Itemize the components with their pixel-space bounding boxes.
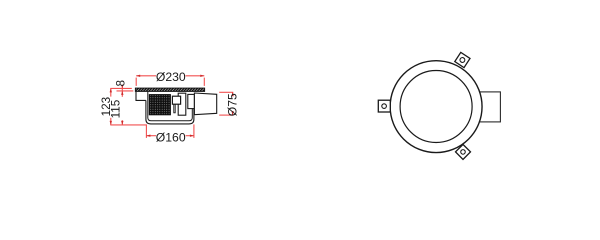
O160 arrows <box>146 135 150 137</box>
bowl inner wall <box>148 92 193 121</box>
ext line flange bottom <box>117 90 134 92</box>
115 arrows <box>121 91 123 95</box>
bowl outer wall <box>146 100 194 124</box>
outlet pipe <box>194 93 216 115</box>
dim line O75 <box>232 92 234 96</box>
bottom mounting tab <box>456 144 471 159</box>
socket <box>188 94 195 108</box>
dim line 123 <box>110 88 112 96</box>
dim line 115 and 8 (shared x) <box>121 87 123 97</box>
stem under knob <box>174 104 175 113</box>
dim line O160 <box>146 135 156 137</box>
ext line O75 bottom <box>219 114 233 116</box>
inner circle <box>400 71 472 143</box>
ext line O230 left <box>135 78 137 86</box>
ext line bowl bottom <box>110 124 146 126</box>
knob on tube <box>172 96 180 104</box>
svg-text:Ø75: Ø75 <box>226 93 240 116</box>
123 arrows <box>110 88 112 92</box>
ext line O160 left <box>145 124 147 137</box>
O75 arrows <box>231 92 233 96</box>
basket (mesh filter) <box>149 95 170 115</box>
ext line O75 top <box>219 91 233 93</box>
red arrowheads <box>110 75 234 137</box>
ext line O230 right <box>203 78 205 86</box>
outer circle (flange) <box>390 61 482 153</box>
ext line O160 right <box>193 124 195 137</box>
outlet stub <box>470 92 500 122</box>
O230 arrows <box>136 75 140 77</box>
svg-text:8: 8 <box>115 80 128 87</box>
8 arrows (outside) <box>121 85 123 89</box>
ext line flange top <box>110 87 132 89</box>
left rim step below flange <box>136 92 146 101</box>
svg-text:115: 115 <box>110 99 123 118</box>
left mounting tab <box>378 100 390 112</box>
svg-text:Ø160: Ø160 <box>156 131 186 145</box>
red dimension group <box>110 76 233 138</box>
svg-text:Ø230: Ø230 <box>156 70 186 84</box>
inner tube <box>178 93 186 115</box>
top mounting tab <box>455 52 470 67</box>
flange with hatch <box>135 88 204 91</box>
dim line O230 <box>136 75 156 77</box>
